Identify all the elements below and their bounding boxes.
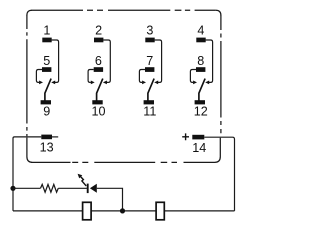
svg-text:2: 2: [95, 23, 102, 37]
junction node at left rail / indicator branch: [10, 186, 15, 191]
pole 2: NO contact arrowhead: [91, 81, 95, 85]
pole 2: NC contact arrowhead: [103, 81, 107, 85]
svg-text:4: 4: [197, 23, 204, 37]
pole 1: terminal 5: [42, 67, 51, 72]
pole 4: moving contact blade from terminal 12: [199, 79, 205, 101]
svg-text:8: 8: [197, 54, 204, 68]
junction node on bottom rail: [120, 208, 125, 213]
wire: terminal 13 to left rail: [13, 137, 41, 188]
pole 3: NC fixed-contact wire from terminal 3: [155, 40, 162, 82]
wire: left rail down to bottom rail: [12, 188, 14, 211]
relay coil winding 2: [156, 202, 164, 220]
pole 4: NC fixed-contact wire from terminal 4: [206, 40, 213, 82]
relay outline top edge: [31, 9, 216, 11]
LED light-emission lightning arrow: [81, 177, 87, 186]
pole 3: moving contact blade from terminal 11: [148, 79, 154, 101]
wire: LED to right rail drop: [97, 188, 123, 211]
pole 3: terminal 3: [145, 38, 154, 43]
pole 3: NC contact arrowhead: [154, 81, 158, 85]
pole 1: NO contact arrowhead: [39, 81, 43, 85]
pole 2: terminal 10 (common): [92, 100, 102, 104]
pole 1: NC contact arrowhead: [51, 81, 55, 85]
svg-text:13: 13: [40, 141, 54, 155]
relay outline top-right corner: [216, 10, 221, 15]
coil terminal 13: [41, 135, 52, 140]
wire: terminal 14 to right rail: [204, 137, 234, 211]
wire: terminal 13 stub right: [52, 136, 58, 138]
internal coil connection 13-to-14 (chain line across relay bottom): [27, 138, 220, 163]
pole 2: NO fixed-contact wire from terminal 6: [88, 70, 94, 83]
LED indicator: cathode bar: [87, 184, 89, 194]
pole 4: NO fixed-contact wire from terminal 8: [190, 70, 196, 83]
pole 1: NO fixed-contact wire from terminal 5: [36, 70, 42, 83]
relay outline right edge: [220, 15, 222, 133]
pole 1: moving contact blade from terminal 9: [45, 79, 51, 101]
pole 3: terminal 11 (common): [144, 100, 154, 104]
svg-text:6: 6: [95, 54, 102, 68]
relay outline left edge: [26, 15, 28, 136]
pole 1: terminal 9 (common): [41, 100, 51, 104]
wire: bottom rail: [13, 210, 235, 212]
svg-text:5: 5: [43, 54, 50, 68]
pole 1: terminal 1: [42, 38, 51, 43]
svg-text:10: 10: [91, 104, 105, 118]
pole 4: terminal 4: [196, 38, 205, 43]
svg-text:12: 12: [194, 104, 208, 118]
coil terminal 14: [192, 135, 204, 140]
relay coil winding 1: [83, 202, 92, 220]
svg-text:7: 7: [146, 54, 153, 68]
pole 4: NO contact arrowhead: [193, 81, 197, 85]
svg-text:9: 9: [43, 104, 50, 118]
pole 2: NC fixed-contact wire from terminal 2: [103, 40, 110, 82]
wire: resistor to LED: [58, 187, 87, 189]
pole 2: terminal 2: [94, 38, 103, 43]
relay body outline (phantom/chain line border), top-left corner: [27, 10, 32, 15]
pole 3: NO fixed-contact wire from terminal 7: [139, 70, 145, 83]
pole 2: terminal 6: [94, 67, 103, 72]
pole 4: NC contact arrowhead: [205, 81, 209, 85]
pole 4: terminal 12 (common): [195, 100, 205, 104]
pole 1: NC fixed-contact wire from terminal 1: [52, 40, 59, 82]
plus polarity mark at pin 14: [182, 133, 189, 140]
wire: indicator branch from left rail to resistor: [13, 187, 41, 189]
pole 3: terminal 7: [145, 67, 154, 72]
pole 2: moving contact blade from terminal 10: [97, 79, 103, 101]
LED indicator: anode triangle: [90, 184, 97, 193]
pole 4: terminal 8: [196, 67, 205, 72]
resistor (LED series): [41, 184, 59, 192]
svg-text:14: 14: [192, 141, 206, 155]
pole 3: NO contact arrowhead: [142, 81, 146, 85]
svg-text:11: 11: [143, 104, 156, 118]
svg-text:1: 1: [43, 23, 50, 37]
svg-text:3: 3: [146, 23, 153, 37]
